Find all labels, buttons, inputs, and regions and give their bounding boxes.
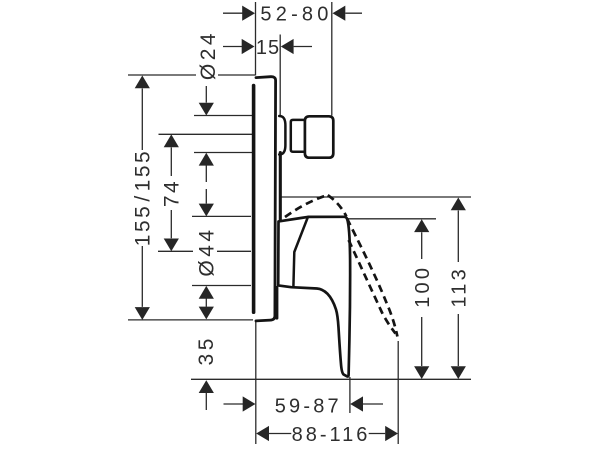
svg-text:15: 15 bbox=[256, 37, 280, 59]
svg-text:113: 113 bbox=[449, 266, 471, 308]
svg-text:59-87: 59-87 bbox=[275, 395, 342, 417]
svg-text:155/155: 155/155 bbox=[132, 149, 155, 246]
svg-text:35: 35 bbox=[195, 335, 218, 365]
svg-text:88-116: 88-116 bbox=[292, 424, 371, 446]
svg-text:Ø24: Ø24 bbox=[197, 30, 220, 80]
svg-text:100: 100 bbox=[412, 265, 434, 308]
svg-text:52-80: 52-80 bbox=[260, 4, 332, 26]
svg-text:74: 74 bbox=[161, 179, 184, 207]
svg-text:Ø44: Ø44 bbox=[196, 226, 219, 276]
